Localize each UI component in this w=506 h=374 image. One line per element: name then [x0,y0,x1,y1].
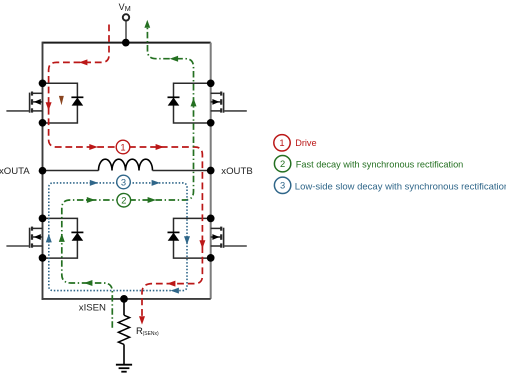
svg-text:xISEN: xISEN [79,302,106,313]
svg-text:3: 3 [121,176,126,187]
svg-text:(SENx): (SENx) [143,331,159,337]
svg-text:M: M [125,4,131,13]
svg-text:1: 1 [120,141,125,152]
svg-text:Drive: Drive [295,138,316,148]
svg-text:xOUTA: xOUTA [0,166,30,177]
svg-text:2: 2 [280,158,285,169]
svg-text:V: V [119,2,125,12]
svg-text:2: 2 [121,195,126,206]
svg-text:xOUTB: xOUTB [221,166,252,177]
svg-text:Low-side slow decay with synch: Low-side slow decay with synchronous rec… [295,181,506,192]
svg-text:Fast decay with synchronous re: Fast decay with synchronous rectificatio… [296,159,464,169]
svg-text:3: 3 [280,180,285,191]
svg-text:1: 1 [279,137,284,148]
